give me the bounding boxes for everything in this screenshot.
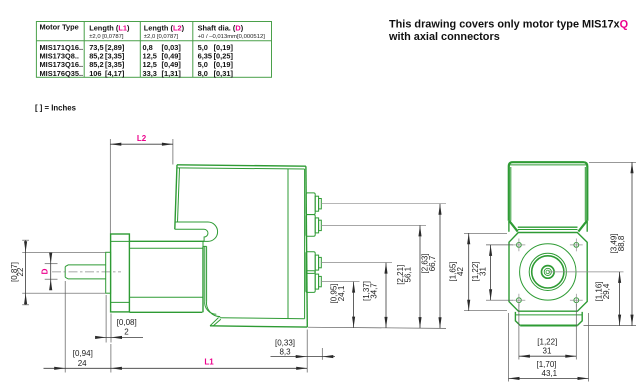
dimension [0,08] 2 [95, 295, 143, 343]
side view: housing inner divider [287, 169, 289, 319]
svg-text:31: 31 [543, 346, 552, 355]
front view: mounting hole bottom-left [513, 294, 526, 307]
svg-text:Length (L2): Length (L2) [144, 23, 185, 32]
svg-text:[4,17]: [4,17] [105, 69, 125, 78]
svg-text:[0,94]: [0,94] [73, 349, 93, 358]
svg-text:24: 24 [78, 359, 87, 368]
svg-text:24,1: 24,1 [337, 285, 346, 301]
svg-text:88,8: 88,8 [617, 235, 626, 251]
dimension [0,87] 22 [10, 240, 105, 305]
connector 2 [306, 215, 321, 237]
svg-text:42: 42 [456, 267, 465, 276]
baseline extension [308, 327, 446, 328]
side view: flange chamfer lines [111, 240, 130, 242]
svg-text:[0,33]: [0,33] [275, 339, 295, 348]
dimension [1,65] 42 [449, 233, 507, 310]
dimension [1,16] 29,4 [548, 272, 624, 326]
data table [36, 22, 271, 78]
svg-text:8,3: 8,3 [279, 348, 291, 357]
dimension [0,33] 8,3 [271, 339, 336, 360]
table header divider [36, 40, 271, 42]
svg-text:MIS176Q35..: MIS176Q35.. [40, 69, 84, 78]
table column dividers [83, 22, 85, 78]
table outer border [36, 22, 271, 78]
svg-text:L1: L1 [204, 357, 214, 366]
side view: housing bottom edges [220, 318, 305, 319]
svg-text:66,7: 66,7 [428, 255, 437, 271]
dimension [2,21] 56,1 [396, 225, 422, 328]
svg-text:+0 / –0,013mm[0,000512]: +0 / –0,013mm[0,000512] [198, 34, 266, 40]
svg-text:2: 2 [124, 327, 129, 336]
connector 3 [306, 252, 321, 274]
dimension [3,49] 88,8 [584, 162, 637, 325]
connector centerlines [321, 203, 446, 205]
side view: housing left edge [175, 165, 177, 230]
side view: housing top edge [177, 165, 306, 166]
dimension [0,95] 24,1 [330, 282, 356, 328]
side view: housing lip and hook [175, 222, 217, 241]
front view: housing inner edges [510, 164, 587, 166]
dimension [1,22] 31 left [471, 245, 513, 300]
side view: stator lines [129, 248, 203, 297]
front view: center circles [520, 244, 576, 300]
front view: housing outline [509, 162, 588, 221]
front view: mounting hole top-right [570, 239, 583, 252]
svg-text:22: 22 [16, 267, 25, 276]
side view: housing right edge [306, 166, 307, 327]
svg-text:29,4: 29,4 [602, 283, 611, 299]
front view: mounting hole top-left [513, 239, 526, 252]
svg-text:34,7: 34,7 [370, 283, 379, 299]
dimension [1,22] 31 bottom [519, 304, 576, 360]
front view: bottom plate [515, 312, 582, 326]
side view: shaft centerline [52, 271, 121, 273]
svg-text:This drawing covers only motor: This drawing covers only motor type MIS1… [389, 19, 629, 31]
dimension L2 [110, 134, 173, 234]
svg-text:[ ] = Inches: [ ] = Inches [35, 104, 77, 113]
svg-text:Length (L1): Length (L1) [89, 23, 130, 32]
dimension [2,63] 66,7 [421, 204, 442, 329]
svg-text:43,1: 43,1 [542, 369, 558, 378]
svg-text:31: 31 [478, 267, 487, 276]
svg-text:[0,08]: [0,08] [117, 318, 137, 327]
svg-text:[1,70]: [1,70] [536, 360, 556, 369]
svg-text:106: 106 [89, 69, 101, 78]
svg-text:33,3: 33,3 [143, 69, 157, 78]
dimension [0,94] 24 and L1 [44, 281, 308, 373]
svg-text:Shaft dia. (D): Shaft dia. (D) [198, 23, 244, 32]
svg-text:Motor Type: Motor Type [40, 23, 79, 32]
dimension D [40, 253, 57, 291]
front view: housing front bottom edge [518, 226, 578, 228]
side view: housing bottom chamfer [210, 318, 221, 327]
svg-text:L2: L2 [137, 134, 147, 143]
connector 4 [306, 271, 321, 293]
side view: housing bottom-left corner arc [206, 301, 220, 317]
svg-text:[0,31]: [0,31] [214, 69, 234, 78]
front view: housing transition diagonals [509, 221, 587, 232]
svg-text:D: D [40, 268, 49, 274]
svg-text:±2,0 [0,0787]: ±2,0 [0,0787] [144, 34, 179, 40]
side view: shaft [65, 265, 106, 279]
connector 1 [306, 193, 321, 215]
front view: mounting hole bottom-right [570, 294, 583, 307]
side view: flange plate [111, 234, 130, 312]
front view: flange square with chamfers [509, 233, 587, 312]
dimension [1,37] 34,7 [362, 263, 387, 328]
svg-text:56,1: 56,1 [403, 266, 412, 282]
svg-text:8,0: 8,0 [198, 69, 208, 78]
side view: motor body outline [129, 241, 204, 312]
svg-text:with axial connectors: with axial connectors [388, 31, 500, 43]
svg-text:±2,0 [0,0787]: ±2,0 [0,0787] [89, 34, 124, 40]
dimension [1,70] 43,1 [509, 313, 589, 382]
svg-text:[1,31]: [1,31] [162, 69, 182, 78]
side view: pilot boss [106, 252, 111, 293]
side view: housing front wall [205, 246, 207, 301]
